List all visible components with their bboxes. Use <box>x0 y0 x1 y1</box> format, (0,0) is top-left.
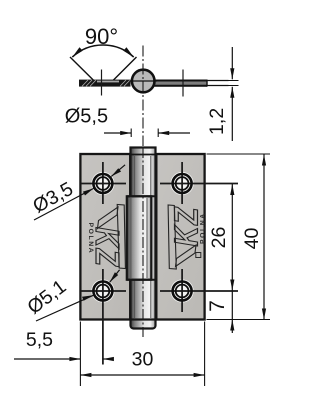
arc arrowhead right <box>123 47 133 57</box>
top view knuckle circle <box>132 70 155 93</box>
dimension Ø5,5 lines and arrows <box>104 129 190 138</box>
right leaf edge line at barrel <box>156 154 158 320</box>
barrel cap separation line <box>131 154 156 156</box>
middle knuckle inner line left <box>130 198 132 278</box>
hole bottom-left countersink <box>91 279 114 302</box>
hole bottom-left crosshair <box>81 269 126 365</box>
barrel bottom cap <box>131 310 156 329</box>
left leaf <box>80 154 130 320</box>
90° dimension arc <box>72 45 133 57</box>
hole bottom-left <box>93 282 112 301</box>
logo right leaf (rotated 90° CCW) <box>167 205 205 269</box>
knuckle circle horizontal centerline <box>130 80 158 82</box>
svg-text:40: 40 <box>241 228 263 250</box>
vertical centerline of pin (top view to front view) <box>142 46 144 147</box>
svg-text:5,5: 5,5 <box>26 329 53 351</box>
logo right leaf small square mark <box>196 253 201 258</box>
right leaf <box>152 154 205 320</box>
dimension 5,5 line and arrows <box>14 357 114 361</box>
arc arrowhead left <box>72 47 82 57</box>
dimension Ø3,5 leader and arrows <box>34 165 125 220</box>
knuckle joint line bottom <box>127 279 157 281</box>
hole top-left crosshair <box>81 162 126 204</box>
hole top-right crosshair <box>160 162 238 204</box>
middle knuckle <box>127 196 152 279</box>
pin inner line right <box>150 156 152 318</box>
top view leaf thin tip <box>207 81 229 86</box>
angle leg right <box>113 57 137 81</box>
extension line leaf bottom right <box>207 319 271 321</box>
top view left leaf (hatched section) <box>79 80 131 87</box>
hole top-left countersink <box>91 172 114 195</box>
extension line leaf left edge <box>79 322 81 387</box>
hole top-right countersink <box>171 172 194 195</box>
extension line leaf right edge bottom <box>204 322 206 387</box>
svg-text:POLNA: POLNA <box>87 223 94 255</box>
barrel column <box>131 148 156 320</box>
pin inner line left <box>134 156 136 318</box>
dimension 26 line and arrows <box>230 184 234 291</box>
hole centerline tick right (top view) <box>182 70 184 97</box>
hole top-right <box>173 174 192 193</box>
svg-text:7: 7 <box>206 300 229 312</box>
middle knuckle inner line right <box>146 198 148 278</box>
angle leg left <box>70 57 94 80</box>
svg-text:26: 26 <box>208 227 230 249</box>
dimension 1,2 lines and arrows <box>222 47 239 141</box>
dimension 30 line and arrows <box>80 373 204 377</box>
hole top-left <box>93 174 112 193</box>
svg-text:30: 30 <box>132 349 154 371</box>
svg-text:1,2: 1,2 <box>206 108 228 135</box>
barrel bottom separation line <box>131 319 156 321</box>
dimension 7 line and arrows <box>230 291 234 334</box>
dimension Ø5,1 leader and arrows <box>36 270 120 321</box>
top view right leaf <box>155 80 208 87</box>
hole bottom-right crosshair <box>160 269 238 312</box>
extension line leaf top right <box>207 153 271 155</box>
dimension 40 line and arrows <box>262 155 266 320</box>
hole bottom-right <box>173 282 192 301</box>
hole bottom-right countersink <box>171 279 194 302</box>
knuckle joint line top <box>127 195 157 197</box>
svg-text:Ø5,5: Ø5,5 <box>65 106 108 128</box>
logo left leaf (rotated 90° CW) <box>89 205 127 269</box>
hole centerline tick left (top view) <box>101 70 103 96</box>
svg-text:POLNA: POLNA <box>199 212 206 244</box>
pin centerline front view <box>142 147 144 337</box>
